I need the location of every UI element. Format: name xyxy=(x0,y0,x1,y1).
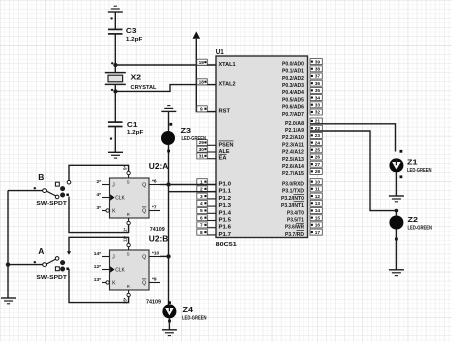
svg-text:7: 7 xyxy=(200,223,203,229)
svg-text:14: 14 xyxy=(315,208,321,214)
svg-text:P2.3/A11: P2.3/A11 xyxy=(282,142,304,148)
svg-text:P2.7/A15: P2.7/A15 xyxy=(282,171,304,177)
pin P0.7 (32) xyxy=(282,109,322,118)
wire xyxy=(395,230,397,270)
wire (power rail to RST) xyxy=(196,39,216,112)
wire (SW B top throw to U2:A S) xyxy=(67,165,128,184)
svg-text:Z4: Z4 xyxy=(183,305,194,314)
svg-text:U2:B: U2:B xyxy=(149,234,169,244)
svg-text:30: 30 xyxy=(199,147,205,153)
svg-text:38: 38 xyxy=(315,67,321,73)
svg-text:X2: X2 xyxy=(131,73,142,82)
svg-text:9: 9 xyxy=(200,107,203,113)
svg-text:P0.2/AD2: P0.2/AD2 xyxy=(282,76,304,82)
label 74109 (U2:A) xyxy=(150,227,165,233)
svg-text:P0.0/AD0: P0.0/AD0 xyxy=(282,61,304,67)
svg-text:P3.1/TXD: P3.1/TXD xyxy=(282,189,304,195)
svg-text:SW-SPDT: SW-SPDT xyxy=(36,275,67,281)
label 74109 (U2:B) xyxy=(146,300,161,306)
flip-flop U2:B (74109) xyxy=(94,236,160,304)
svg-text:P2.6/A14: P2.6/A14 xyxy=(282,164,305,170)
svg-text:1.2pF: 1.2pF xyxy=(127,130,144,136)
svg-text:R: R xyxy=(127,212,130,217)
node (U2:B Q junction) xyxy=(166,254,170,258)
svg-text:P2.2/A10: P2.2/A10 xyxy=(282,135,304,141)
svg-text:26: 26 xyxy=(315,155,321,161)
pin P2.5 (26) xyxy=(282,154,322,163)
wire (U2:A Q to node) xyxy=(160,184,169,186)
wire (SW A top throw to U2:B S) xyxy=(67,237,129,255)
pin P3.6 (16) xyxy=(285,222,322,231)
svg-text:25: 25 xyxy=(315,148,321,154)
svg-text:18: 18 xyxy=(199,80,205,86)
svg-text:24: 24 xyxy=(315,140,321,146)
pin P0.2 (37) xyxy=(282,73,322,82)
svg-text:P0.7/AD7: P0.7/AD7 xyxy=(282,112,304,118)
svg-text:P0.1/AD1: P0.1/AD1 xyxy=(282,69,304,75)
pin P2.2 (23) xyxy=(282,132,322,141)
svg-text:P2.4/A12: P2.4/A12 xyxy=(282,150,304,156)
wire (vertical net) xyxy=(168,185,170,257)
svg-text:32: 32 xyxy=(315,110,321,116)
ground (below Z4) xyxy=(162,330,177,336)
svg-text:A: A xyxy=(38,246,44,256)
svg-text:Q: Q xyxy=(142,281,146,287)
svg-text:C1: C1 xyxy=(127,120,137,129)
svg-text:14*: 14* xyxy=(94,251,101,257)
svg-text:74109: 74109 xyxy=(146,300,161,306)
svg-text:11: 11 xyxy=(315,187,320,193)
svg-text:P2.5/A13: P2.5/A13 xyxy=(282,157,304,163)
svg-text:Z1: Z1 xyxy=(407,157,418,166)
ground (below C1) xyxy=(108,152,123,158)
pin XTAL2 (18) xyxy=(197,79,236,88)
pin P1.5 (6) xyxy=(197,215,231,224)
svg-text:8: 8 xyxy=(200,230,203,236)
ground (below Z2) xyxy=(389,270,404,276)
svg-text:SW-SPDT: SW-SPDT xyxy=(36,201,67,207)
pin ALE (30) xyxy=(197,146,230,155)
wire (to XTAL1) xyxy=(115,64,216,66)
pin P2.7 (28) xyxy=(282,168,322,177)
svg-text:LED-GREEN: LED-GREEN xyxy=(182,136,207,142)
svg-text:P1.2: P1.2 xyxy=(219,196,232,202)
svg-text:13*: 13* xyxy=(94,277,101,283)
wire xyxy=(110,127,116,153)
svg-text:S: S xyxy=(127,180,130,185)
svg-text:LED-GREEN: LED-GREEN xyxy=(407,168,432,174)
pin P2.4 (25) xyxy=(282,147,322,156)
wire (P2.1 to Z2) xyxy=(310,131,398,216)
svg-text:6: 6 xyxy=(200,215,203,221)
svg-text:LED-GREEN: LED-GREEN xyxy=(182,315,207,321)
led Z3 xyxy=(161,126,206,145)
flip-flop U2:A (74109) xyxy=(96,166,160,232)
svg-text:74109: 74109 xyxy=(150,227,165,233)
switch B (SW-SPDT) xyxy=(8,172,69,207)
svg-text:36: 36 xyxy=(315,81,321,87)
svg-text:17: 17 xyxy=(315,230,321,236)
svg-text:K: K xyxy=(112,281,116,287)
node (XTAL1 net junction) xyxy=(111,62,118,67)
ground (above C3) xyxy=(108,6,123,12)
wire (down to Z4) xyxy=(168,256,170,304)
svg-text:15: 15 xyxy=(315,215,321,221)
svg-text:16: 16 xyxy=(315,223,321,229)
ground (below Z1) xyxy=(389,196,404,202)
pin P1.4 (5) xyxy=(197,208,232,217)
svg-text:*7: *7 xyxy=(152,204,157,210)
svg-text:P1.7: P1.7 xyxy=(219,232,232,238)
svg-text:34: 34 xyxy=(315,95,321,101)
power symbol (VCC arrow) xyxy=(193,31,201,38)
svg-text:Z3: Z3 xyxy=(181,126,192,135)
wire (to P1.1) xyxy=(169,191,217,193)
svg-text:P2.1/A9: P2.1/A9 xyxy=(285,128,304,134)
pin P3.0 (10) xyxy=(282,179,322,188)
svg-text:*6: *6 xyxy=(152,178,157,184)
svg-text:5*: 5* xyxy=(122,166,127,170)
svg-text:11*: 11* xyxy=(122,236,127,242)
svg-text:3*: 3* xyxy=(96,205,101,211)
svg-text:27: 27 xyxy=(315,162,321,168)
svg-text:33: 33 xyxy=(315,103,321,109)
svg-text:EA: EA xyxy=(219,156,227,162)
svg-text:2*: 2* xyxy=(96,179,101,185)
wire (P2.0 to Z1) xyxy=(310,124,402,153)
svg-text:P3.0/RXD: P3.0/RXD xyxy=(282,182,304,188)
svg-text:PSEN: PSEN xyxy=(219,142,234,148)
pin P3.1 (11) xyxy=(282,186,322,195)
svg-text:RST: RST xyxy=(219,109,231,115)
wire (to XTAL2) xyxy=(115,85,216,92)
svg-text:P1.1: P1.1 xyxy=(219,189,232,195)
svg-text:4*: 4* xyxy=(96,192,101,198)
svg-text:Q: Q xyxy=(142,255,146,261)
svg-text:P0.5/AD5: P0.5/AD5 xyxy=(282,97,304,103)
wire xyxy=(167,145,170,185)
pin P0.5 (34) xyxy=(282,95,322,104)
svg-text:P1.4: P1.4 xyxy=(219,210,233,216)
svg-text:XTAL2: XTAL2 xyxy=(219,82,236,88)
pin P2.3 (24) xyxy=(282,140,322,149)
pin P1.3 (4) xyxy=(197,200,231,209)
svg-text:*10: *10 xyxy=(152,250,160,256)
svg-text:80C51: 80C51 xyxy=(216,242,237,248)
svg-text:P3.6/WR: P3.6/WR xyxy=(285,225,304,231)
pin P2.1 (22) xyxy=(285,125,322,134)
pin P1.6 (7) xyxy=(197,222,231,231)
svg-text:CRYSTAL: CRYSTAL xyxy=(131,85,158,91)
svg-text:5: 5 xyxy=(200,208,203,214)
pin P0.1 (38) xyxy=(282,66,322,75)
wire (SW A bottom throw to U2:B R) xyxy=(69,269,129,303)
svg-text:13: 13 xyxy=(315,201,321,207)
pin P3.5 (15) xyxy=(287,215,322,224)
svg-text:CLK: CLK xyxy=(115,268,125,274)
svg-text:U2:A: U2:A xyxy=(149,161,169,171)
mcu U1 80C51 xyxy=(216,47,308,248)
pin P0.3 (36) xyxy=(282,80,322,89)
capacitor C1 xyxy=(108,120,144,136)
pin P2.6 (27) xyxy=(282,161,322,170)
svg-text:P0.3/AD3: P0.3/AD3 xyxy=(282,83,304,89)
svg-text:28: 28 xyxy=(315,169,321,175)
svg-text:P3.7/RD: P3.7/RD xyxy=(285,232,304,238)
crystal X2 xyxy=(105,73,157,91)
ground (above Z3) xyxy=(161,106,176,112)
wire (SW B bottom throw to U2:A R) xyxy=(69,197,129,233)
pin P3.2 (12) xyxy=(281,193,322,202)
led Z2 xyxy=(389,215,432,241)
svg-text:P1.6: P1.6 xyxy=(219,225,232,231)
pin P1.7 (8) xyxy=(197,229,231,238)
svg-text:P2.0/A8: P2.0/A8 xyxy=(285,121,304,127)
svg-text:12*: 12* xyxy=(94,264,101,270)
pin P1.0 (1) xyxy=(197,179,231,188)
pin P0.6 (33) xyxy=(282,102,322,111)
ground (bottom left) xyxy=(1,298,16,304)
pin P0.4 (35) xyxy=(282,87,322,96)
svg-text:37: 37 xyxy=(315,74,321,80)
svg-text:39: 39 xyxy=(315,59,321,65)
svg-text:Q: Q xyxy=(142,209,146,215)
svg-text:31: 31 xyxy=(199,154,205,160)
svg-text:P3.4/T0: P3.4/T0 xyxy=(287,210,304,216)
wire xyxy=(395,172,397,196)
svg-text:1*: 1* xyxy=(122,228,127,232)
svg-text:C3: C3 xyxy=(126,26,136,35)
capacitor C3 xyxy=(108,26,143,43)
svg-text:35: 35 xyxy=(315,88,321,94)
wire (U2:B Q to node) xyxy=(160,255,169,257)
svg-text:P0.6/AD6: P0.6/AD6 xyxy=(282,105,304,111)
svg-text:LED-GREEN: LED-GREEN xyxy=(408,225,433,231)
pin P2.0 (21) xyxy=(285,118,322,127)
svg-text:10: 10 xyxy=(315,179,321,185)
svg-text:23: 23 xyxy=(315,133,321,139)
wire xyxy=(114,34,116,73)
svg-text:P1.3: P1.3 xyxy=(219,203,232,209)
wire (to P1.0) xyxy=(169,184,217,186)
wire xyxy=(169,111,173,131)
label U2:B xyxy=(149,234,169,244)
pin P1.1 (2) xyxy=(197,186,231,195)
svg-text:K: K xyxy=(112,209,116,215)
pin EA (31) xyxy=(197,153,227,162)
svg-text:B: B xyxy=(38,172,44,182)
svg-text:1.2pF: 1.2pF xyxy=(126,37,143,43)
svg-text:XTAL1: XTAL1 xyxy=(219,62,236,68)
pin RST (9) xyxy=(197,106,231,115)
svg-text:*9: *9 xyxy=(152,276,157,282)
node (rail junction) xyxy=(6,262,10,266)
svg-text:Q: Q xyxy=(142,183,146,189)
svg-text:19: 19 xyxy=(199,60,205,66)
node (P1.0 net junction) xyxy=(166,182,170,186)
svg-text:Z2: Z2 xyxy=(408,215,419,224)
pin P0.0 (39) xyxy=(282,59,322,68)
svg-text:P3.5/T1: P3.5/T1 xyxy=(287,218,304,224)
pin XTAL1 (19) xyxy=(197,59,236,68)
svg-text:P1.5: P1.5 xyxy=(219,218,232,224)
svg-text:P0.4/AD4: P0.4/AD4 xyxy=(282,90,305,96)
led Z1 xyxy=(389,157,431,178)
svg-text:CLK: CLK xyxy=(115,196,125,202)
wire xyxy=(114,84,116,122)
svg-text:P1.0: P1.0 xyxy=(219,182,232,188)
wire (left rail) xyxy=(7,191,9,298)
pin P3.4 (14) xyxy=(287,208,322,217)
svg-text:R: R xyxy=(127,284,130,289)
pin PSEN (29) xyxy=(197,140,234,149)
svg-text:J: J xyxy=(112,255,115,261)
switch A (SW-SPDT) xyxy=(8,246,69,281)
wire xyxy=(168,318,170,329)
node (XTAL2 net junction) xyxy=(111,89,118,94)
svg-text:4: 4 xyxy=(200,201,203,207)
svg-text:P3.3/INT1: P3.3/INT1 xyxy=(281,203,304,209)
led Z4 xyxy=(162,301,206,322)
svg-text:P3.2/INT0: P3.2/INT0 xyxy=(281,196,304,202)
svg-text:12: 12 xyxy=(315,194,321,200)
svg-text:S: S xyxy=(127,252,130,257)
pin P3.7 (17) xyxy=(285,229,322,238)
svg-text:3: 3 xyxy=(200,194,203,200)
svg-text:U1: U1 xyxy=(216,47,224,56)
pin P1.2 (3) xyxy=(197,193,231,202)
label U2:A xyxy=(149,161,169,171)
wire xyxy=(110,12,115,29)
svg-text:J: J xyxy=(112,183,115,189)
pin P3.3 (13) xyxy=(281,200,322,209)
